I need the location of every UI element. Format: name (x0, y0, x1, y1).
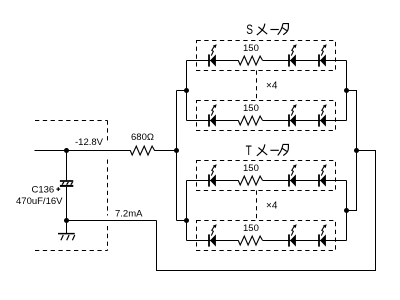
T meter row2 wire (187, 240, 239, 242)
junction dot cap top (64, 148, 69, 153)
S meter box row1 (dashed) (197, 41, 336, 71)
LED row2 c (319, 104, 327, 126)
LED row3 c (319, 164, 327, 186)
ground (58, 221, 75, 241)
wire -12.8V feed (35, 150, 131, 152)
junction dot cap bottom (64, 218, 69, 223)
S meter x4 link (dashed) (256, 71, 258, 101)
svg-text:T: T (246, 142, 253, 158)
LED row1 a (209, 44, 217, 66)
resistor 150 row1 (238, 56, 262, 65)
resistor 150 row3 (238, 176, 262, 185)
resistor 680 ohm (130, 146, 154, 155)
wire feed rail vertical (176, 91, 178, 221)
wire 7.2mA (67, 220, 157, 222)
T meter x4 link (dashed) (256, 191, 258, 221)
junction dot T left (184, 218, 189, 223)
LED row2 a (209, 104, 217, 126)
junction dot S left (184, 88, 189, 93)
svg-text:150: 150 (243, 163, 259, 174)
LED row4 c (319, 224, 327, 246)
junction dot T right (344, 208, 349, 213)
resistor 150 row2 (238, 116, 262, 125)
svg-text:470uF/16V: 470uF/16V (16, 196, 63, 207)
svg-text:C136: C136 (32, 185, 55, 196)
T meter box row2 (dashed) (197, 221, 336, 251)
S meter row1 wire (187, 60, 239, 62)
svg-text:7.2mA: 7.2mA (115, 209, 143, 220)
svg-text:×4: ×4 (266, 201, 278, 212)
T meter right rail (346, 181, 348, 241)
capacitor C136 (56, 151, 73, 221)
LED row4 b (289, 224, 297, 246)
LED row4 a (209, 224, 217, 246)
LED row2 b (289, 104, 297, 126)
S meter box row2 (dashed) (197, 101, 336, 131)
S meter left rail (186, 61, 188, 121)
LED row3 b (289, 164, 297, 186)
svg-text:150: 150 (243, 43, 259, 54)
svg-text:×4: ×4 (266, 81, 278, 92)
LED row3 a (209, 164, 217, 186)
T meter box row1 (dashed) (197, 161, 336, 191)
resistor 150 row4 (238, 236, 262, 245)
S meter right rail (346, 61, 348, 121)
svg-text:S: S (246, 21, 253, 37)
T meter row1 wire (187, 180, 239, 182)
svg-text:150: 150 (243, 103, 259, 114)
junction dot feed rail (174, 148, 179, 153)
svg-text:-12.8V: -12.8V (75, 137, 104, 148)
junction dot output (354, 148, 359, 153)
svg-text:150: 150 (243, 223, 259, 234)
LED row1 b (289, 44, 297, 66)
connector box (left unit, dashed) (35, 121, 108, 251)
wire resistor to rail (154, 150, 176, 152)
wire to T rail (177, 220, 187, 222)
LED row1 c (319, 44, 327, 66)
wire return bottom (157, 151, 376, 271)
T meter left rail (186, 181, 188, 241)
wire S output to T output (347, 91, 357, 211)
S meter row2 wire (187, 120, 239, 122)
wire to S rail (177, 90, 187, 92)
junction dot S right (344, 88, 349, 93)
svg-text:680Ω: 680Ω (131, 132, 154, 143)
